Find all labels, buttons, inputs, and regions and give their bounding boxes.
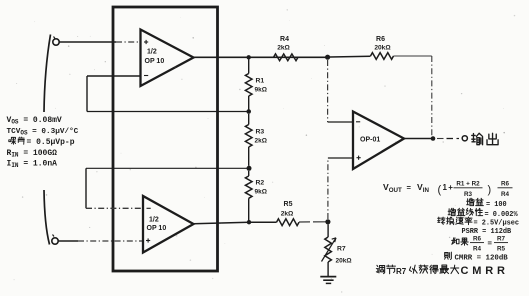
svg-text:2kΩ: 2kΩ <box>277 45 290 52</box>
resistor R4 2k <box>274 36 299 61</box>
svg-text:1: 1 <box>443 183 448 192</box>
input terminal bottom <box>52 235 58 245</box>
svg-text:R5: R5 <box>284 201 293 208</box>
spec text TCVOS <box>7 127 79 137</box>
svg-text:= 100: = 100 <box>486 201 507 209</box>
wire A2 feedback loop <box>86 168 249 208</box>
wire to output terminal <box>437 138 459 140</box>
wire A1 feedback loop <box>87 76 249 112</box>
resistor R1 9k <box>245 60 267 110</box>
svg-text:R6: R6 <box>501 181 510 188</box>
svg-text:R3: R3 <box>464 191 473 198</box>
spec text IIN <box>7 160 58 170</box>
svg-text:OP 10: OP 10 <box>145 58 165 65</box>
wire bottom input to A2 + <box>58 240 143 242</box>
svg-text:2kΩ: 2kΩ <box>281 211 294 218</box>
wire A1 output <box>194 56 328 58</box>
wire top input to A1 + <box>59 41 140 43</box>
svg-text:R2: R2 <box>256 180 265 187</box>
svg-text:R4: R4 <box>280 36 289 43</box>
spec text noise <box>9 137 75 147</box>
svg-text:R7: R7 <box>337 246 346 253</box>
spec text VOS <box>7 116 62 126</box>
junction output node <box>431 136 436 141</box>
svg-text:= 0.5μVp-p: = 0.5μVp-p <box>27 138 75 147</box>
svg-text:R4: R4 <box>473 246 482 253</box>
svg-text:9kΩ: 9kΩ <box>255 189 267 196</box>
spec PSRR <box>462 228 512 236</box>
svg-text:+: + <box>448 183 453 192</box>
input terminal top <box>53 37 59 46</box>
spec gain = 100 <box>467 198 507 208</box>
resistor R5 2k <box>251 201 328 226</box>
svg-text:=: = <box>488 239 493 248</box>
svg-text:CMRR: CMRR <box>461 265 509 277</box>
svg-text:R1: R1 <box>256 78 265 85</box>
op-amp U3 OP-01 <box>353 112 404 170</box>
resistor R6 20k <box>371 36 394 59</box>
wire to OP-01 non-inverting input <box>328 158 353 219</box>
svg-text:R6: R6 <box>473 236 482 243</box>
IC package box <box>113 7 218 271</box>
wire R6 right lead <box>394 55 432 57</box>
junction A1out-R1 <box>247 55 251 59</box>
svg-text:20kΩ: 20kΩ <box>336 258 352 265</box>
svg-text:1/2: 1/2 <box>149 217 159 224</box>
wire OP-01 output <box>404 138 433 140</box>
wire to R6 <box>330 55 371 58</box>
svg-text:R5: R5 <box>497 246 506 253</box>
wire feedback vertical to output node <box>431 56 433 136</box>
resistor R3 2k <box>245 114 267 166</box>
junction R4-R6 node <box>325 55 330 60</box>
spec CMRR <box>445 252 509 262</box>
op-amp A2 (1/2 OP-10) <box>143 196 194 253</box>
svg-text:=: = <box>407 183 412 192</box>
svg-text:2kΩ: 2kΩ <box>255 138 267 145</box>
svg-text:R4: R4 <box>501 191 510 198</box>
svg-text:CMRR = 120dB: CMRR = 120dB <box>455 255 509 263</box>
svg-text:OP-01: OP-01 <box>360 137 380 144</box>
svg-text:): ) <box>488 184 492 196</box>
junction A2out-R2-R5 <box>247 220 251 224</box>
spec if R6/R4=R7/R5 <box>452 236 508 253</box>
node X junction <box>246 109 251 114</box>
wire A2 output <box>194 222 250 224</box>
svg-text:R7: R7 <box>497 236 506 243</box>
svg-text:= 2.5V/μsec: = 2.5V/μsec <box>474 220 520 228</box>
output terminal <box>462 136 467 141</box>
svg-text:TCVOS = 0.3μV/°C: TCVOS = 0.3μV/°C <box>7 127 79 137</box>
note adjust R7 for max CMRR <box>376 265 508 277</box>
op-amp A1 (1/2 OP-10) <box>141 30 194 87</box>
spec slew rate <box>438 217 519 228</box>
svg-text:OP 10: OP 10 <box>147 225 167 232</box>
svg-text:1/2: 1/2 <box>147 49 157 56</box>
label 输出 (output) <box>472 133 498 144</box>
svg-text:= 0.002%: = 0.002% <box>485 211 519 219</box>
node Y junction <box>247 166 252 171</box>
junction R5-R7 node <box>325 219 330 224</box>
spec text RIN <box>7 149 58 159</box>
svg-text:R1 + R2: R1 + R2 <box>456 181 480 188</box>
svg-text:9kΩ: 9kΩ <box>255 87 267 94</box>
resistor R7 trimmer 20k <box>322 224 352 264</box>
input source bracket <box>44 35 51 245</box>
svg-text:(: ( <box>438 184 442 196</box>
svg-text:20kΩ: 20kΩ <box>374 45 391 52</box>
formula VOUT <box>383 181 513 199</box>
svg-text:R3: R3 <box>256 129 265 136</box>
svg-text:R6: R6 <box>376 36 385 43</box>
ground <box>320 262 336 283</box>
wire to OP-01 inverting input <box>328 60 353 122</box>
resistor R2 9k <box>245 171 267 221</box>
svg-text:R7: R7 <box>396 267 407 276</box>
spec gain linearity <box>448 208 518 218</box>
